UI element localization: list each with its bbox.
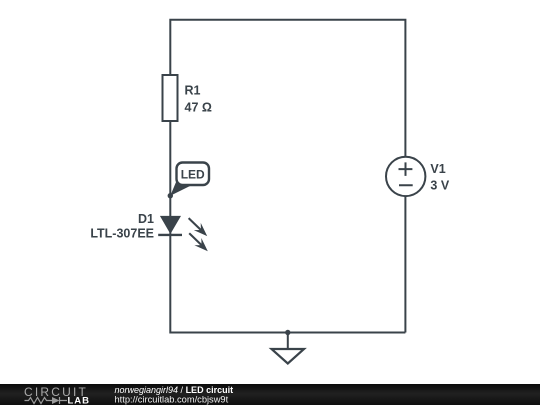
svg-text:V1: V1 xyxy=(430,162,445,176)
svg-text:LED: LED xyxy=(181,167,205,181)
svg-text:47 Ω: 47 Ω xyxy=(185,101,212,115)
svg-text:http://circuitlab.com/cbjsw9t: http://circuitlab.com/cbjsw9t xyxy=(115,394,229,404)
svg-text:LAB: LAB xyxy=(68,396,91,406)
svg-text:R1: R1 xyxy=(185,84,201,98)
svg-text:3 V: 3 V xyxy=(430,178,449,192)
svg-text:LTL-307EE: LTL-307EE xyxy=(90,226,154,240)
svg-text:D1: D1 xyxy=(138,212,154,226)
svg-text:norwegiangirl94 / LED circuit: norwegiangirl94 / LED circuit xyxy=(115,385,234,395)
